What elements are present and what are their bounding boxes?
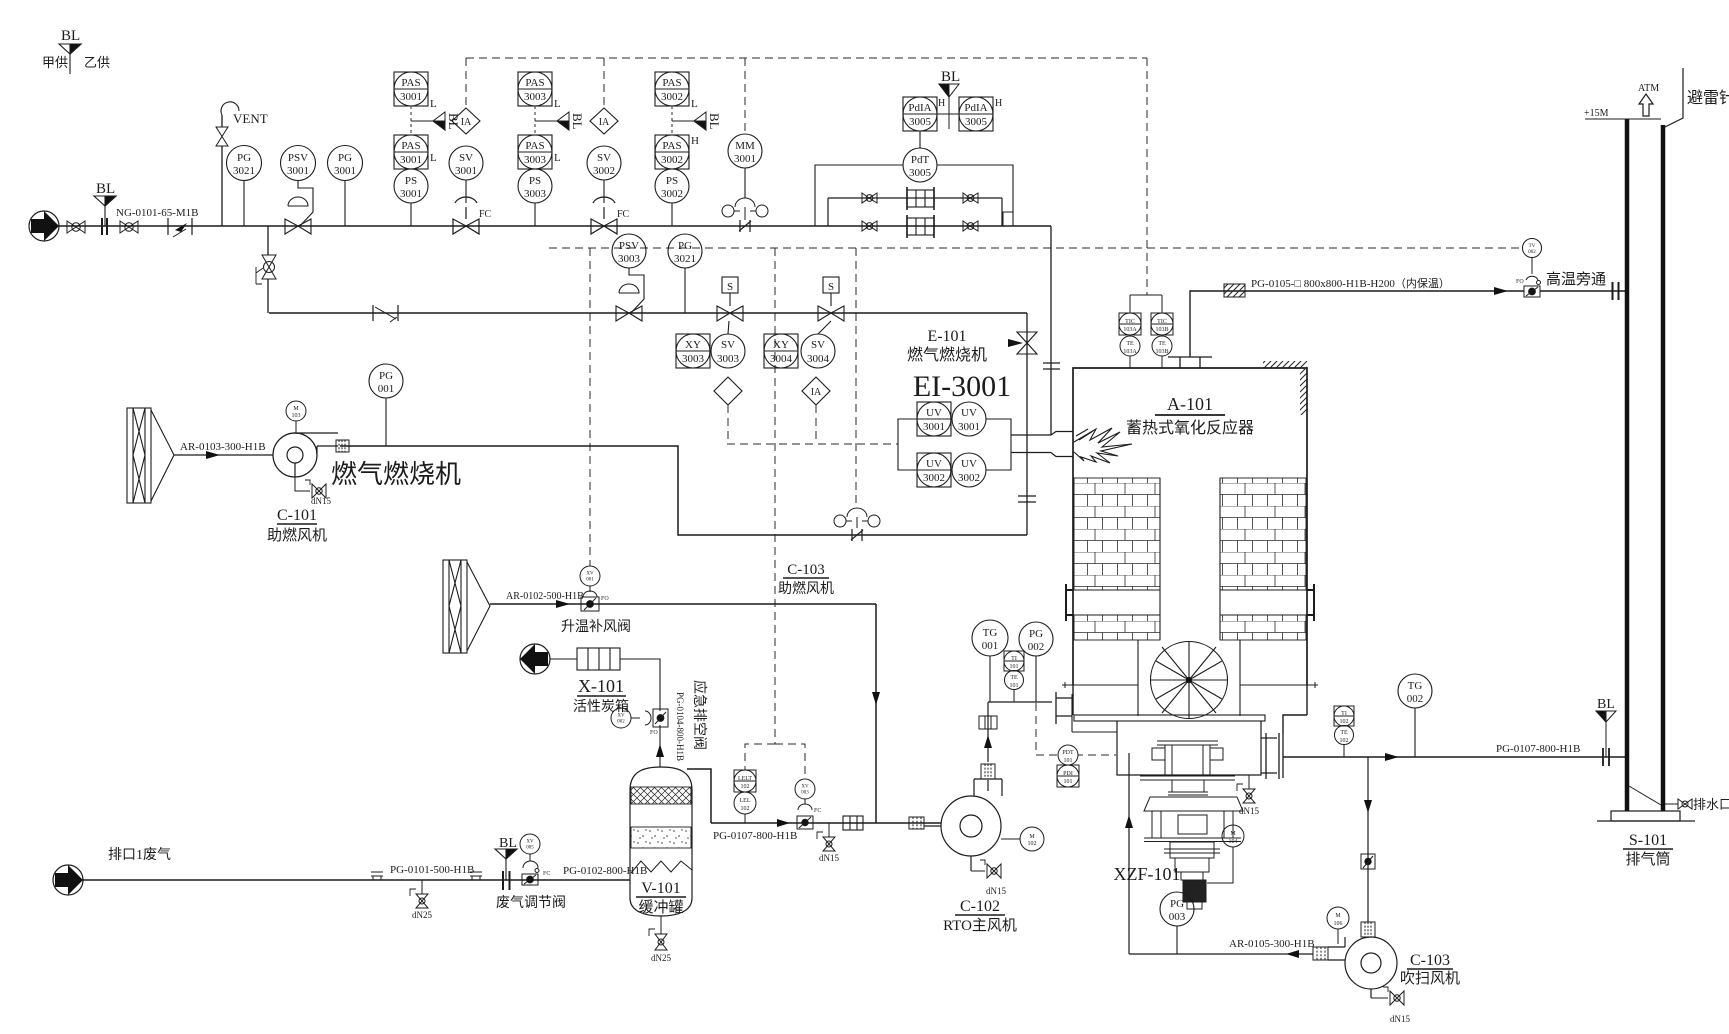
shaft stack <box>1164 842 1220 880</box>
stack base <box>1597 811 1695 821</box>
flange pair at stack <box>1613 282 1619 300</box>
svg-text:PS: PS <box>405 175 417 187</box>
svg-text:101: 101 <box>1010 664 1019 670</box>
flange pair <box>1603 748 1609 766</box>
inlet nozzle flange <box>1056 692 1072 724</box>
transmitter TI-101 <box>1004 651 1024 671</box>
svg-text:EI-3001: EI-3001 <box>913 370 1011 403</box>
svg-text:103B: 103B <box>1155 349 1168 355</box>
wire: purge fan suction <box>1367 757 1369 938</box>
gauge PG-3021 <box>227 146 262 227</box>
insulating joint on pilot drop <box>1018 496 1036 502</box>
svg-text:AR-0102-500-H1B: AR-0102-500-H1B <box>506 591 584 602</box>
stack walls <box>1625 119 1630 811</box>
BL flag on gas inlet <box>94 196 116 226</box>
svg-text:ATM: ATM <box>1638 83 1659 94</box>
wire: signal line to PDT-101 <box>1036 703 1116 755</box>
svg-text:TI: TI <box>1011 656 1017 662</box>
svg-text:3001: 3001 <box>400 91 422 103</box>
fan C-103 <box>1328 937 1397 998</box>
flex connector (fan discharge) <box>336 440 349 452</box>
igniter assembly (burner) <box>834 508 880 541</box>
relay XY-3003 <box>676 334 710 368</box>
packing band (crosshatch) <box>631 787 691 804</box>
burner barrel <box>1011 432 1073 457</box>
atmosphere discharge arrow <box>520 644 550 674</box>
svg-text:102: 102 <box>1028 841 1037 847</box>
motor M-103 <box>286 401 306 421</box>
bypass valve upper-right <box>963 193 978 203</box>
svg-text:PG: PG <box>1170 898 1184 910</box>
wire: solenoid signal drops to UV bus <box>727 405 898 444</box>
sensor TE-102 <box>1335 726 1354 758</box>
drain valve dN25 <box>410 880 428 908</box>
svg-text:PG: PG <box>1029 628 1043 640</box>
svg-text:3001: 3001 <box>734 153 756 165</box>
svg-text:3004: 3004 <box>770 353 793 365</box>
svg-text:dN15: dN15 <box>986 886 1006 896</box>
svg-text:3001: 3001 <box>400 154 422 166</box>
svg-text:PdIA: PdIA <box>908 102 931 114</box>
wire: purge air riser <box>1128 753 1130 954</box>
svg-text:3021: 3021 <box>674 253 696 265</box>
svg-text:SV: SV <box>721 339 735 351</box>
igniter assembly on gas header <box>722 198 768 232</box>
svg-text:XV: XV <box>801 785 809 790</box>
svg-text:燃气燃烧机: 燃气燃烧机 <box>907 346 987 364</box>
svg-text:BL: BL <box>61 28 80 44</box>
svg-text:C-102: C-102 <box>960 898 1000 915</box>
svg-text:102: 102 <box>741 806 750 812</box>
drain valve dN15 <box>817 823 835 851</box>
gauge PG-003 <box>1160 892 1194 954</box>
svg-text:3002: 3002 <box>958 472 980 484</box>
wire: gas drop to burner nozzle x=1051 <box>1050 226 1052 435</box>
analyzer LEL-102 <box>734 792 756 823</box>
svg-text:M: M <box>293 406 299 412</box>
svg-text:PAS: PAS <box>662 77 681 89</box>
svg-text:L: L <box>554 98 561 110</box>
svg-text:102: 102 <box>1340 719 1349 725</box>
wire: PdIA connecting line <box>937 113 959 115</box>
gas filter upper <box>907 187 934 210</box>
svg-text:TG: TG <box>983 627 998 639</box>
svg-text:L: L <box>691 98 698 110</box>
svg-text:C-101: C-101 <box>277 507 317 524</box>
flex connector (C-102 discharge) <box>981 764 995 779</box>
svg-text:003: 003 <box>801 791 809 796</box>
chamber step <box>1072 694 1117 732</box>
ceramic bed right lower <box>1220 615 1306 640</box>
PAS-3002 switch (lower) <box>655 135 689 169</box>
motor M-102 <box>1020 827 1044 851</box>
svg-text:002: 002 <box>1528 250 1536 255</box>
housing flange <box>1144 838 1241 842</box>
svg-text:PG: PG <box>379 370 393 382</box>
svg-text:PSV: PSV <box>619 240 639 252</box>
signal dash between PAS boxes <box>410 106 412 135</box>
svg-text:蓄热式氧化反应器: 蓄热式氧化反应器 <box>1126 418 1254 437</box>
wire: hot bypass <box>1190 291 1626 357</box>
monitor MM-3001 <box>728 134 762 198</box>
ball valve V1 <box>67 221 85 233</box>
control valve FC (burner train B) <box>591 197 617 234</box>
main line valve left <box>862 221 877 231</box>
svg-text:dN25: dN25 <box>412 910 432 920</box>
controller TIC-103B <box>1151 313 1173 335</box>
svg-text:3002: 3002 <box>661 154 683 166</box>
wire: signal bus right drop x=1147 <box>1146 58 1148 295</box>
svg-text:TV: TV <box>1529 244 1536 249</box>
relief valve PSV-3001 <box>281 146 316 235</box>
svg-text:C-103: C-103 <box>787 562 825 578</box>
flow arrow <box>206 451 220 459</box>
svg-text:PG-0105-□ 800x800-H1B-H200（内保温: PG-0105-□ 800x800-H1B-H200（内保温） <box>1251 276 1450 290</box>
svg-text:3005: 3005 <box>909 116 932 128</box>
svg-text:废气调节阀: 废气调节阀 <box>496 895 566 911</box>
center duct walls <box>1160 478 1220 640</box>
left blind nozzle <box>1066 584 1073 621</box>
wire: signal drop to XV-001 <box>589 248 591 566</box>
svg-text:助燃风机: 助燃风机 <box>267 526 327 544</box>
svg-text:106: 106 <box>1334 921 1343 927</box>
svg-text:102: 102 <box>741 784 750 790</box>
svg-text:103B: 103B <box>1155 327 1168 333</box>
svg-text:002: 002 <box>617 720 625 725</box>
svg-text:TE: TE <box>1126 341 1134 347</box>
pipe support 2 <box>470 872 482 880</box>
flex connector (C-103 discharge) <box>1313 947 1328 960</box>
wire: NG main gas header y=226 <box>59 225 1051 227</box>
IA diamond (SV-3002) <box>590 108 618 134</box>
wire: second gas line y=313 <box>269 312 1027 314</box>
solenoid SV-3003 <box>711 321 745 368</box>
damper on suction <box>1361 854 1375 869</box>
tank drain dN25 <box>649 916 667 950</box>
gauge PG-001 <box>369 364 403 446</box>
svg-text:缓冲罐: 缓冲罐 <box>638 899 683 916</box>
svg-text:S-101: S-101 <box>1629 832 1667 849</box>
BL flag top-left <box>59 44 81 74</box>
gauge PG-3021 (line 2) <box>668 234 702 313</box>
svg-text:BL: BL <box>1597 697 1615 712</box>
wire: signal drop to MM3001 <box>744 58 746 134</box>
svg-text:FO: FO <box>601 596 609 602</box>
pipe support 1 <box>371 872 383 880</box>
svg-text:3003: 3003 <box>717 353 740 365</box>
wire: signal drop to IA diamond SV3001 <box>465 58 467 108</box>
outlet nozzle <box>1261 733 1283 779</box>
PAS-3003 switch (lower) <box>518 135 552 169</box>
svg-text:RTO主风机: RTO主风机 <box>943 917 1017 934</box>
svg-text:H: H <box>691 135 699 147</box>
svg-text:+15M: +15M <box>1584 108 1609 119</box>
svg-text:3002: 3002 <box>923 472 945 484</box>
svg-text:PDT: PDT <box>1062 750 1074 756</box>
svg-text:UV: UV <box>926 407 942 419</box>
svg-text:高温旁通: 高温旁通 <box>1546 271 1606 288</box>
wire: C-102 discharge duct <box>988 702 1052 791</box>
neck <box>1168 780 1208 795</box>
PAS-3002 switch (upper) <box>655 72 689 106</box>
flame scanner UV-3002 (indicator) <box>952 453 986 487</box>
drive motor block <box>1183 880 1206 909</box>
BL flag <box>535 112 569 130</box>
svg-text:LELT: LELT <box>738 776 752 782</box>
svg-text:dN15: dN15 <box>1390 1014 1410 1024</box>
pressure regulator on drop x=268 <box>256 255 276 284</box>
svg-text:UV: UV <box>961 407 977 419</box>
svg-text:UV: UV <box>961 458 977 470</box>
svg-text:3003: 3003 <box>524 188 547 200</box>
wire: signal drop to burner igniter <box>855 248 857 506</box>
svg-text:3002: 3002 <box>661 188 683 200</box>
alarm PdIA-3005 (right) <box>959 97 993 131</box>
svg-text:BL: BL <box>707 113 722 130</box>
wire: filter bypass loop <box>828 198 1002 226</box>
damper XV-001 <box>580 566 600 611</box>
svg-text:L: L <box>430 152 437 164</box>
BL flag at stack <box>1596 711 1616 757</box>
svg-text:乙供: 乙供 <box>84 55 110 70</box>
svg-text:PS: PS <box>529 175 541 187</box>
svg-text:3002: 3002 <box>593 165 615 177</box>
motor M-106 <box>1327 907 1349 929</box>
gauge TG-002 <box>1398 674 1432 757</box>
svg-text:升温补风阀: 升温补风阀 <box>561 619 631 635</box>
relief valve PSV-3003 <box>612 234 646 321</box>
svg-text:3001: 3001 <box>287 165 309 177</box>
svg-text:002: 002 <box>1407 693 1424 705</box>
check valve on line 2 <box>373 305 398 322</box>
svg-text:IA: IA <box>811 387 822 398</box>
svg-text:3003: 3003 <box>618 253 641 265</box>
svg-text:3001: 3001 <box>923 421 945 433</box>
wire: mid signal bus y=248 <box>549 247 1523 249</box>
insulation spec break <box>1224 284 1245 297</box>
svg-text:002: 002 <box>1028 641 1045 653</box>
bottom plate <box>1074 715 1265 721</box>
svg-text:H: H <box>938 98 945 109</box>
transmitter PdT-3005 <box>903 131 937 182</box>
transmitter TI-102 <box>1334 706 1354 726</box>
solenoid SV-3002 <box>587 146 621 203</box>
insulating joint on gas drop <box>1043 363 1060 369</box>
fan drain dN15 <box>971 860 1001 878</box>
svg-text:3005: 3005 <box>909 167 932 179</box>
svg-text:PDI: PDI <box>1063 771 1073 777</box>
solenoid shutoff S (train B) <box>818 277 844 321</box>
reactor shell <box>1073 368 1307 734</box>
svg-text:XZF-101: XZF-101 <box>1114 864 1181 884</box>
wire: TIC bracket <box>1130 295 1162 368</box>
wire: warm-up air line <box>490 604 876 823</box>
upper bearing cover <box>1144 797 1243 811</box>
motor M-104 <box>1222 825 1244 847</box>
svg-text:TIC: TIC <box>1157 319 1167 325</box>
svg-text:FC: FC <box>479 209 492 220</box>
flow arrow down <box>1364 800 1372 813</box>
vent valve <box>216 127 228 146</box>
IA diamond (SV-3001) <box>452 108 480 134</box>
flow arrow up <box>984 735 992 748</box>
flow arrow <box>777 819 790 827</box>
svg-text:SV: SV <box>811 339 825 351</box>
flow arrow <box>1494 287 1508 295</box>
svg-text:3001: 3001 <box>400 188 422 200</box>
wire: stack feed line y=757 <box>1283 756 1626 758</box>
svg-text:dN25: dN25 <box>651 953 671 963</box>
PAS-3001 switch (lower) <box>394 135 428 169</box>
svg-text:排水口: 排水口 <box>1693 797 1729 812</box>
right blind nozzle <box>1307 584 1314 621</box>
flow arrow <box>556 600 570 608</box>
svg-text:PS: PS <box>666 175 678 187</box>
top manhole <box>1168 357 1212 368</box>
svg-text:PSV: PSV <box>288 152 308 164</box>
gauge TG-001 <box>972 620 1008 702</box>
analyzer LELT-102 <box>734 770 756 792</box>
svg-text:3004: 3004 <box>807 353 830 365</box>
svg-text:dN15: dN15 <box>311 496 331 506</box>
insulation joint ticks with flow arrow <box>168 218 192 237</box>
valve TV-002 <box>1523 239 1542 298</box>
flange pair <box>102 218 107 235</box>
svg-text:M: M <box>1029 834 1035 840</box>
svg-text:TG: TG <box>1408 680 1423 692</box>
svg-text:FC: FC <box>814 808 821 814</box>
wire: PdT sensing lines <box>815 165 1013 226</box>
main line valve right <box>963 221 978 231</box>
svg-text:3001: 3001 <box>334 165 356 177</box>
svg-text:SV: SV <box>597 152 611 164</box>
vent hook <box>221 102 239 115</box>
rotary wheel <box>1151 642 1228 719</box>
svg-text:M: M <box>1335 913 1341 919</box>
bottom chamber <box>1117 721 1261 775</box>
svg-text:吹扫风机: 吹扫风机 <box>1400 970 1460 987</box>
svg-text:IA: IA <box>599 117 610 128</box>
fan shroud <box>1138 640 1240 716</box>
switch PS-3002 <box>655 169 689 226</box>
wire: signal drop x=775 to LEL/XV-003 <box>774 248 776 744</box>
lightning rod 避雷针 <box>1665 68 1683 127</box>
lower flange pair <box>1140 776 1235 780</box>
BL flag (instrument vent) <box>411 112 445 130</box>
controller TIC-103A <box>1119 313 1141 335</box>
svg-text:102: 102 <box>1340 738 1349 744</box>
switch PS-3003 <box>518 169 552 226</box>
svg-text:L: L <box>430 98 437 110</box>
svg-text:助燃风机: 助燃风机 <box>778 580 834 597</box>
svg-text:PAS: PAS <box>525 140 544 152</box>
svg-text:PG: PG <box>338 152 352 164</box>
flow arrow up vent <box>656 744 664 757</box>
svg-text:VENT: VENT <box>233 111 268 126</box>
burner gas inlet valve <box>1008 332 1037 354</box>
gauge PG-002 <box>1019 622 1053 702</box>
flow arrow down warm-up <box>872 692 880 705</box>
PAS-3003 switch (upper) <box>518 72 552 106</box>
svg-text:C-103: C-103 <box>1410 952 1450 969</box>
svg-text:3003: 3003 <box>524 91 547 103</box>
valve XV-003 <box>795 779 815 829</box>
+15M level mark <box>1585 118 1661 120</box>
svg-text:001: 001 <box>378 383 395 395</box>
pipe anchor at header end <box>1003 212 1013 226</box>
bypass valve upper-left <box>862 193 877 203</box>
flex connector (C-102 suction) <box>909 817 924 829</box>
wire: signal branch to LELT-102 <box>745 744 805 779</box>
svg-text:LEL: LEL <box>740 798 751 804</box>
diamond interlock (train A) <box>714 377 742 405</box>
BL flag above PdIA <box>939 84 959 129</box>
svg-text:V-101: V-101 <box>641 880 680 897</box>
BL flag waste gas <box>495 849 517 880</box>
svg-text:TE: TE <box>1158 341 1166 347</box>
svg-text:003: 003 <box>1169 911 1186 923</box>
burner flame <box>1074 428 1132 463</box>
side duct band <box>1073 590 1307 615</box>
flange pair <box>503 871 510 890</box>
svg-text:FO: FO <box>1516 279 1524 285</box>
svg-text:TIC: TIC <box>1125 319 1135 325</box>
air intake filter 2 <box>443 560 490 653</box>
solenoid shutoff S (train A) <box>717 277 743 321</box>
svg-text:3001: 3001 <box>958 421 980 433</box>
svg-text:SV: SV <box>459 152 473 164</box>
svg-text:H: H <box>995 98 1002 109</box>
svg-text:XY: XY <box>773 339 789 351</box>
control damper XV-005 (waste gas control valve) <box>520 834 540 885</box>
relay XY-3004 <box>764 334 798 368</box>
joint box on discharge <box>979 716 997 729</box>
flow arrow left <box>1286 950 1299 958</box>
svg-text:排口1废气: 排口1废气 <box>108 847 171 863</box>
signal dash between PAS-3003 boxes <box>534 106 536 135</box>
svg-text:3021: 3021 <box>233 165 255 177</box>
svg-text:PG-0101-500-H1B: PG-0101-500-H1B <box>390 864 474 876</box>
svg-text:001: 001 <box>982 640 999 652</box>
drain outlet 排水口 <box>1665 799 1692 809</box>
indicator PDI-101 <box>1057 765 1079 787</box>
PAS-3001 switch (upper) <box>394 72 428 106</box>
svg-text:IA: IA <box>461 117 472 128</box>
solenoid SV-3001 <box>449 146 483 203</box>
flame scanner UV-3001 (switch) <box>917 402 951 436</box>
svg-text:UV: UV <box>926 458 942 470</box>
demister zigzag <box>631 861 692 873</box>
svg-text:XV: XV <box>526 840 534 845</box>
ceramic bed left upper <box>1074 478 1160 590</box>
BL flag <box>672 112 706 130</box>
svg-text:PG-0107-800-H1B: PG-0107-800-H1B <box>1496 743 1580 755</box>
svg-text:PG-0107-800-H1B: PG-0107-800-H1B <box>713 830 797 842</box>
wire: combustion air line C-101 to burner <box>340 446 1027 535</box>
ceramic bed left lower <box>1074 615 1160 640</box>
svg-text:TE: TE <box>1010 675 1018 681</box>
svg-text:FC: FC <box>543 871 550 877</box>
svg-text:AR-0103-300-H1B: AR-0103-300-H1B <box>180 441 266 453</box>
centering ticks <box>1062 682 1318 688</box>
gauge PG-3001 <box>328 146 363 227</box>
svg-text:PdT: PdT <box>911 154 930 166</box>
wire: signal drop to IA diamond SV3002 <box>603 58 605 108</box>
svg-text:AR-0105-300-H1B: AR-0105-300-H1B <box>1229 938 1315 950</box>
fan drain dN15 <box>1371 987 1404 1005</box>
wire: fan suction <box>174 454 273 456</box>
flow arrow up purge <box>1125 815 1133 828</box>
